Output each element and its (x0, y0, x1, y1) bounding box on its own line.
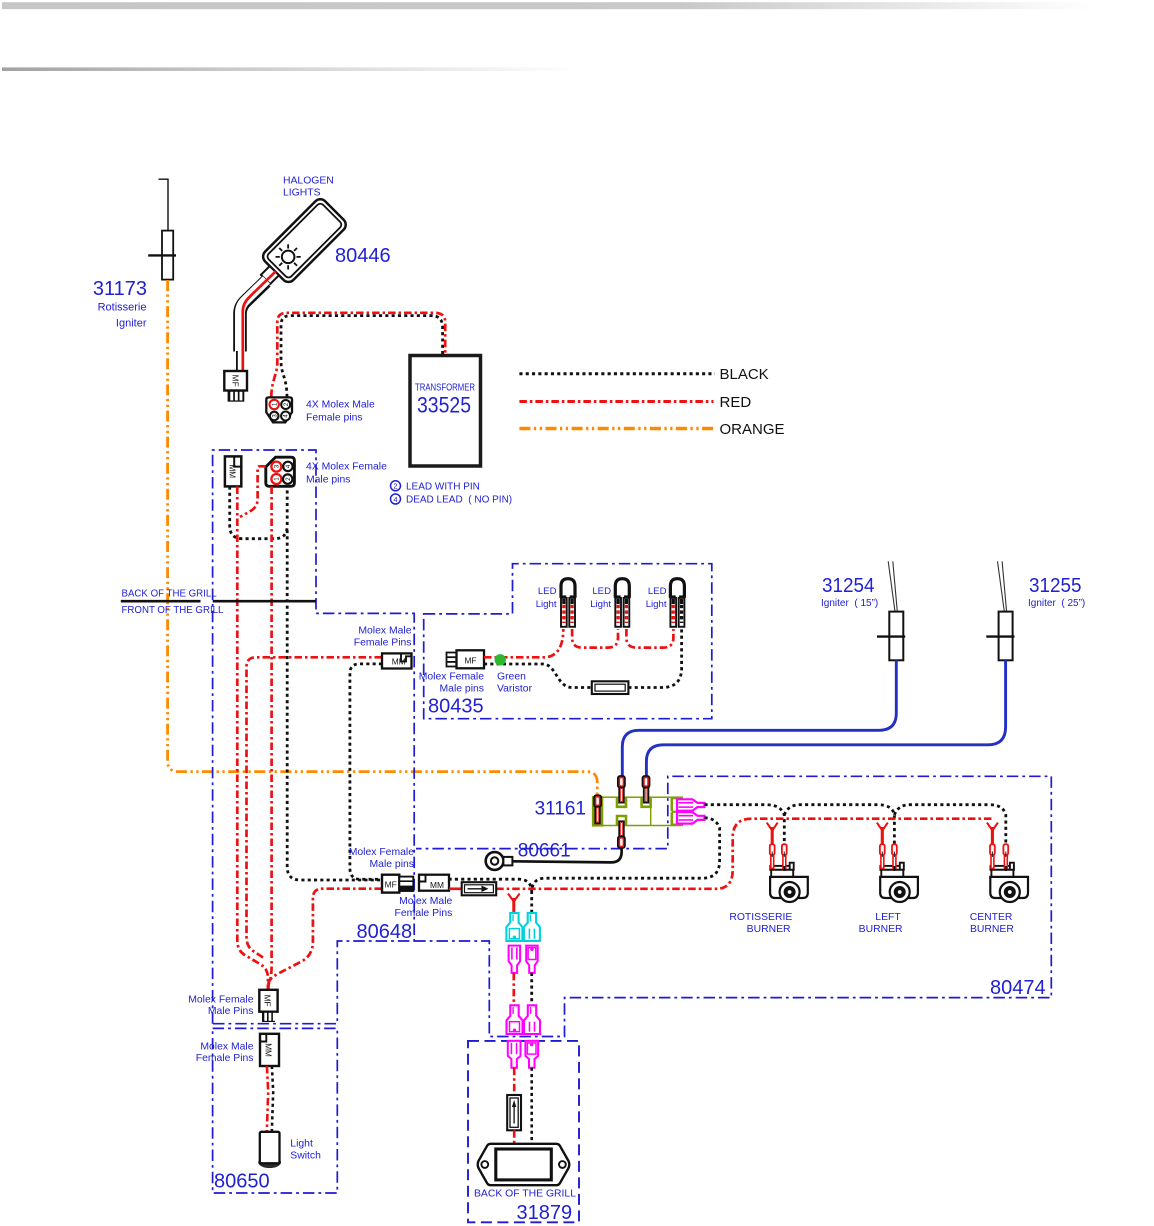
svg-text:RED: RED (720, 394, 752, 411)
svg-text:ORANGE: ORANGE (720, 421, 785, 438)
svg-text:Female Pins: Female Pins (354, 638, 412, 649)
svg-text:BURNER: BURNER (970, 924, 1014, 935)
svg-text:LEAD WITH PIN: LEAD WITH PIN (406, 481, 480, 492)
legend note lead with pin (391, 481, 401, 491)
svg-text:BLACK: BLACK (720, 366, 769, 383)
svg-text:MM: MM (263, 1043, 272, 1057)
svg-text:80648: 80648 (357, 921, 413, 943)
svg-text:31254: 31254 (822, 575, 875, 597)
red wire to middle-upper MM and down (247, 657, 383, 957)
burner terminal left-left (880, 844, 885, 868)
red wire MM bottom down to lower MF (237, 487, 268, 990)
svg-text:2: 2 (393, 482, 397, 491)
red drop burner 3 (987, 823, 998, 831)
red wire MM to diode box (449, 887, 462, 890)
cyan female disconnect right (524, 913, 540, 941)
red fork arrow to cyan pair (508, 894, 520, 902)
spark module 31161 body (593, 797, 682, 825)
80650 boundary box (213, 1028, 338, 1193)
svg-text:MM: MM (430, 880, 444, 890)
black wire below hose (236, 351, 238, 371)
80435 MF connector (Molex Female Male pins) (447, 650, 485, 668)
black bus upper magenta to burner right terminals (705, 805, 1006, 844)
black wire from middle-upper MM down to middle MF (350, 664, 383, 879)
green varistor dot (495, 654, 506, 665)
bottom MF connector (Molex Female Male Pins) (259, 990, 277, 1022)
igniter 31254 (877, 561, 905, 660)
red drop burner 2 (877, 823, 888, 831)
magenta male disconnect right (middle) (526, 946, 538, 973)
module terminal top 2 (643, 776, 650, 803)
80435 boundary box (424, 564, 712, 719)
LED Light 2 (614, 579, 631, 627)
svg-text:Female Pins: Female Pins (196, 1053, 254, 1064)
LED Light 3 (669, 579, 686, 627)
legend note dead lead (391, 494, 401, 504)
halogen light 80446 lamp (251, 196, 348, 293)
svg-text:ROTISSERIE: ROTISSERIE (729, 912, 792, 923)
31879 magenta female left (507, 1005, 523, 1034)
burner terminal cen-left (990, 844, 995, 868)
svg-text:Molex Male: Molex Male (399, 896, 452, 907)
svg-text:Igniter: Igniter (116, 318, 147, 330)
igniter 31255 (986, 561, 1014, 660)
31879 boundary box (468, 1041, 579, 1222)
svg-text:MF: MF (464, 655, 476, 665)
svg-text:33525: 33525 (417, 393, 471, 418)
header bar top (2, 2, 1098, 9)
svg-text:Male Pins: Male Pins (208, 1006, 254, 1017)
bottom MM connector (Molex Male Female Pins) (260, 1034, 279, 1066)
appliance inlet plate (478, 1144, 570, 1185)
harness boundary 80648 step to 80474 and 80661 line (414, 776, 1051, 1036)
svg-text:LED: LED (592, 586, 611, 597)
red wire 31879 male to fuse (513, 1068, 516, 1095)
light switch (258, 1132, 281, 1168)
svg-text:4X Molex Male: 4X Molex Male (306, 399, 375, 410)
svg-text:31161: 31161 (535, 799, 586, 820)
burner center (990, 863, 1028, 902)
diode box with arrow (462, 882, 497, 895)
middle MM connector (Molex Male Female Pins) (419, 875, 449, 891)
svg-text:Molex Female: Molex Female (419, 672, 484, 683)
svg-text:Igniter ( 25”): Igniter ( 25”) (1028, 598, 1085, 609)
svg-text:Male pins: Male pins (370, 859, 414, 870)
svg-text:FRONT OF THE GRILL: FRONT OF THE GRILL (122, 605, 225, 616)
svg-text:Light: Light (536, 599, 557, 610)
black wire 31879 male to inlet (530, 1068, 533, 1144)
pin 4 (283, 462, 292, 471)
pin 4 (281, 412, 290, 421)
red wire LED1 to LED2 (572, 629, 618, 648)
svg-text:4X Molex Female: 4X Molex Female (306, 462, 387, 473)
red wire fuse to inlet (513, 1130, 516, 1144)
svg-text:Male pins: Male pins (440, 684, 484, 695)
svg-text:Rotisserie: Rotisserie (98, 302, 147, 314)
rotisserie igniter 31173 electrode (148, 179, 176, 279)
svg-text:LIGHTS: LIGHTS (283, 188, 321, 199)
module terminal bottom (618, 821, 625, 848)
svg-text:MM: MM (392, 656, 406, 666)
legend red wire sample (519, 400, 713, 403)
black wire lower magenta down to middle harness (449, 818, 719, 914)
svg-text:4: 4 (393, 495, 397, 504)
svg-text:BURNER: BURNER (859, 924, 903, 935)
svg-text:MM: MM (227, 464, 236, 478)
svg-text:Male pins: Male pins (306, 475, 350, 486)
svg-text:HALOGEN: HALOGEN (283, 176, 334, 187)
svg-text:80661: 80661 (518, 841, 571, 862)
svg-text:Molex Male: Molex Male (200, 1042, 253, 1053)
red hook wire from pin 3 (240, 466, 266, 517)
svg-text:Light: Light (290, 1139, 313, 1150)
svg-text:31173: 31173 (93, 278, 147, 300)
svg-text:Molex Male: Molex Male (358, 626, 411, 637)
svg-text:LED: LED (648, 586, 667, 597)
red wire from middle MF left, down to lower MF (268, 889, 382, 990)
red bus from harness up to burner left terminals (496, 819, 994, 889)
burner terminal rot-right (782, 844, 787, 871)
svg-text:Light: Light (646, 599, 667, 610)
fuse in 80435 (592, 681, 629, 694)
svg-text:Female Pins: Female Pins (395, 908, 453, 919)
svg-text:BURNER: BURNER (747, 924, 791, 935)
magenta disconnect upper at module (677, 799, 704, 810)
burner rotisserie (770, 863, 808, 902)
red wire between male and 31879 female (512, 973, 515, 1005)
red wire in halogen cable (243, 271, 276, 371)
svg-text:MF: MF (262, 995, 271, 1007)
twisted pair to light switch red (267, 1066, 268, 1132)
svg-text:Light: Light (590, 599, 611, 610)
svg-text:Molex Female: Molex Female (188, 995, 253, 1006)
red wire LED2 to LED3 (626, 629, 673, 648)
burner terminal cen-right (1003, 844, 1008, 871)
header bar second (2, 67, 578, 71)
burner terminal rot-left (770, 844, 775, 868)
burner left (880, 863, 918, 902)
svg-text:Green: Green (497, 672, 526, 683)
svg-text:MF: MF (385, 879, 397, 889)
black U wire MM to pin 2 (230, 487, 288, 539)
svg-text:DEAD LEAD ( NO PIN): DEAD LEAD ( NO PIN) (406, 495, 512, 506)
svg-text:31255: 31255 (1029, 575, 1082, 597)
red wire pin1 down to lower MF (268, 487, 271, 990)
ring terminal 80661 (486, 852, 513, 870)
lamp neck (261, 266, 279, 284)
svg-text:31879: 31879 (517, 1202, 573, 1224)
pin 1 (270, 400, 279, 409)
red wire MF to LED1 (484, 629, 563, 657)
pin 3 (271, 462, 281, 472)
red wire molex to transformer (271, 313, 445, 397)
svg-text:BACK OF THE GRILL: BACK OF THE GRILL (474, 1188, 576, 1199)
burner terminal left-right (892, 844, 897, 871)
31879 magenta female right (524, 1005, 540, 1034)
transformer 33525 (410, 356, 481, 467)
legend orange wire sample (519, 427, 713, 430)
black wire molex to transformer (281, 316, 443, 397)
grill divider line (121, 600, 201, 603)
blue wire 31254 to 31161 (622, 660, 896, 776)
svg-text:Igniter ( 15”): Igniter ( 15”) (821, 598, 878, 609)
pin 2 (281, 400, 290, 409)
middle MF connector (Molex Female Male pins) (382, 875, 413, 893)
black wire pin2 column down to middle MF (287, 530, 382, 880)
svg-text:Molex Female: Molex Female (349, 847, 414, 858)
4X Molex Female connector (male pins) (266, 457, 295, 486)
orange wire 31173 to 31161 module (168, 280, 598, 795)
svg-text:Female pins: Female pins (306, 412, 363, 423)
legend black wire sample (519, 372, 715, 375)
black wire module bottom terminal to ring terminal (512, 848, 621, 863)
black wire MF to fuse to LED3 (484, 629, 682, 688)
module terminal left (594, 795, 601, 823)
svg-text:80435: 80435 (428, 696, 484, 718)
svg-text:80474: 80474 (990, 977, 1046, 999)
svg-text:CENTER: CENTER (970, 912, 1013, 923)
halogen MF connector (224, 371, 247, 391)
magenta disconnect lower at module (677, 812, 704, 823)
svg-text:MF: MF (231, 375, 241, 387)
halogen cable hose (240, 282, 266, 352)
svg-text:Varistor: Varistor (497, 684, 533, 695)
pin 3 (270, 412, 279, 421)
svg-text:LED: LED (538, 586, 557, 597)
31879 magenta male left (508, 1041, 521, 1068)
harness boundary box (left tall region) (213, 450, 415, 1024)
black wire between male and 31879 female (530, 973, 533, 1005)
LED Light 1 (559, 579, 576, 627)
svg-text:LEFT: LEFT (875, 912, 901, 923)
module terminal top 1 (618, 776, 625, 803)
cyan female disconnect left (506, 913, 522, 941)
twisted pair to light switch black (272, 1066, 273, 1132)
svg-text:BACK OF THE GRILL: BACK OF THE GRILL (122, 589, 218, 600)
upper MM connector (225, 456, 241, 486)
pin 1 (271, 474, 281, 484)
blue wire 31255 to 31161 (646, 660, 1005, 776)
magenta male disconnect left (middle) (509, 946, 520, 973)
pin 2 (283, 474, 292, 483)
4X Molex Male connector (female pins) (266, 397, 292, 422)
31879 magenta male right (525, 1041, 538, 1068)
sun icon (270, 239, 306, 275)
middle-upper MM connector (Molex Male Female Pins) (382, 653, 412, 668)
svg-text:80446: 80446 (335, 245, 391, 267)
red drop burner 1 (767, 823, 778, 831)
svg-text:80650: 80650 (214, 1171, 270, 1193)
red fuse holder 31879 (507, 1095, 521, 1130)
svg-text:Switch: Switch (290, 1151, 321, 1162)
